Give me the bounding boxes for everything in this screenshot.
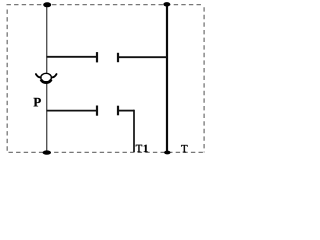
wire: lower contact right lead to corner: [118, 110, 134, 112]
wire: T1 drop to bottom boundary: [133, 110, 135, 152]
wire: upper contact right lead: [118, 56, 167, 58]
junction: top-left node: [43, 2, 51, 7]
dashed boundary bottom side: [9, 151, 205, 153]
contact plate: upper left: [96, 52, 98, 62]
wire: left rail: [46, 5, 48, 152]
dashed boundary top side: [7, 4, 205, 6]
junction: bottom-left node: [43, 150, 51, 154]
wire: right rail: [166, 5, 168, 153]
wire: upper contact left lead: [47, 56, 97, 58]
label T1: [136, 145, 148, 152]
contact plate: lower right: [117, 106, 119, 116]
label P: [34, 98, 41, 107]
contact plate: lower left: [96, 106, 98, 116]
wire: lower contact left lead: [47, 110, 97, 112]
contact plate: upper right: [117, 53, 119, 62]
dashed boundary right side: [203, 7, 205, 152]
dashed boundary left side: [6, 10, 8, 153]
label T: [181, 145, 187, 152]
junction: bottom-right node: [164, 151, 170, 155]
junction: top-right node: [163, 2, 170, 6]
device P: circle symbol with rotation wings: [36, 73, 57, 84]
